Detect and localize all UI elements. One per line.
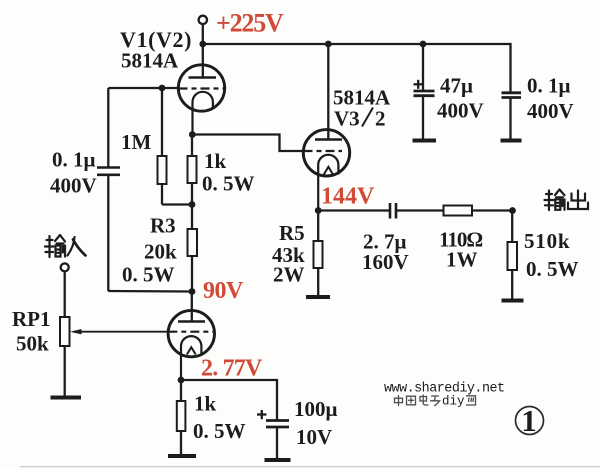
scan artifact bottom edge [20,466,600,468]
svg-text:10V: 10V [296,425,332,449]
node 144V junction [315,207,322,214]
resistor 510k [511,211,513,243]
tube V2b anode plate [178,320,205,322]
svg-text:2W: 2W [273,263,305,287]
svg-text:+225V: +225V [216,9,284,38]
resistor 110 ohm 1W [444,206,473,216]
svg-text:1: 1 [521,403,537,438]
tube V1 grid [179,87,224,89]
svg-text:400V: 400V [437,99,484,123]
svg-text:V3: V3 [334,107,360,131]
ground 510k [502,299,524,303]
node +225V terminal [199,16,207,24]
wire V1 cathode to V3 grid [192,135,304,152]
tube V3 cathode tip [324,167,333,175]
tube V2b cathode tip [187,347,196,354]
svg-text:1k: 1k [194,392,217,416]
capacitor 0.1u 400V right [509,91,511,94]
ground 47u [413,139,437,143]
svg-text:0. 5W: 0. 5W [193,419,246,443]
ground RP1 [51,396,82,400]
svg-text:50k: 50k [16,332,49,356]
svg-text:diy: diy [442,395,465,409]
tube V3 envelope [303,130,349,176]
node junction grid/1M [159,85,166,92]
node junction V3 anode on rail [325,41,332,48]
svg-text:RP1: RP1 [12,307,51,331]
svg-text:47μ: 47μ [440,74,473,98]
svg-text:0. 1μ: 0. 1μ [52,148,96,172]
node junction V1 cathode [189,131,196,138]
svg-text:5814A: 5814A [121,49,179,73]
svg-text:R5: R5 [279,221,305,245]
svg-text:100μ: 100μ [294,397,338,421]
svg-text:160V: 160V [362,250,409,274]
svg-text:20k: 20k [144,240,177,264]
label shuchu (output) [545,190,589,211]
tube V1 envelope [178,65,224,111]
ground R5 [306,295,330,299]
svg-text:510k: 510k [524,229,570,253]
svg-text:400V: 400V [50,174,97,198]
wire C1 bottom down [107,175,109,291]
capacitor 100u 10V [266,419,289,422]
ground 100u [265,458,291,462]
tube V2b anode lead [191,292,193,322]
RP1 wiper arrow [70,329,82,334]
ground 0.1u right [501,139,522,143]
svg-text:1W: 1W [446,248,478,272]
wire RP1 wiper to V2b grid [74,331,168,333]
wire grid down to C1 [107,88,109,167]
wire terminal to rail [202,24,204,45]
wire 2.77V to 100u [181,380,277,420]
resistor 1M [161,88,163,156]
svg-text:0. 5W: 0. 5W [202,172,255,196]
svg-text:2. 77V: 2. 77V [201,356,263,382]
tube V1 cathode [193,92,213,135]
wire 1M bottom to cathode chain [162,203,192,205]
tube V3 grid [304,150,343,152]
resistor 1k V1 cathode [191,135,193,157]
tube V2b cathode [181,336,201,380]
node junction V1 anode [199,41,206,48]
tube V2b grid [168,331,214,333]
wire 144V to coupling cap [318,209,390,211]
wire R110 to output node [472,209,513,211]
tube V2b envelope [168,310,214,356]
wire input to RP1 [64,271,66,317]
svg-text:R3: R3 [150,214,176,238]
ground 1k bottom [168,454,196,458]
resistor 1k bottom [180,380,182,401]
svg-text:2: 2 [375,107,386,131]
resistor R3 20k [191,205,193,230]
svg-text:400V: 400V [527,99,574,123]
wire C1 to 90V node [108,290,192,293]
capacitor 2.7u 160V [389,203,392,219]
circled 1 figure number [516,407,544,435]
watermark cn text [395,395,440,406]
svg-text:0. 5W: 0. 5W [122,263,175,287]
svg-text:1M: 1M [121,130,152,154]
node 2.77V junction [178,377,185,384]
wire top supply rail [203,44,511,92]
potentiometer RP1 50k [60,317,70,346]
polarity + 100u [257,413,267,415]
capacitor C 0.1u 400V left [97,166,120,169]
wire cap to R 110 [396,209,444,211]
capacitor 47u 400V [422,44,424,91]
svg-text:1k: 1k [204,149,227,173]
node junction 47u on rail [420,41,427,48]
label shuru (input) [45,235,86,257]
tube V1 anode lead [202,44,204,78]
svg-text:90V: 90V [203,278,244,304]
node junction 1M/1k/R3 [189,201,196,208]
node output junction [509,207,516,214]
node 90V junction [189,288,196,295]
tube V3 cathode [318,155,338,211]
tube V1 anode plate [189,76,217,78]
polarity + 47u [414,83,423,85]
resistor R5 43k [317,211,319,242]
wire V1 grid to left [108,87,178,89]
svg-text:0. 5W: 0. 5W [526,257,579,281]
tube V3 anode lead [327,44,329,140]
tube V3 anode plate [315,138,342,140]
svg-text:144V: 144V [321,184,375,210]
node input terminal [61,263,69,271]
svg-text:0. 1μ: 0. 1μ [527,74,571,98]
